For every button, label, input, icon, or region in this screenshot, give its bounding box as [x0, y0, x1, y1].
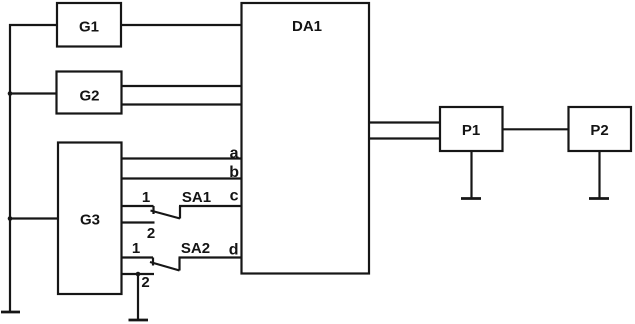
svg-text:P1: P1 [462, 122, 480, 139]
instrument P2 [569, 107, 632, 151]
wire: G2 output lower to DA1 [122, 103, 243, 105]
ground: left bus [1, 311, 20, 314]
generator G2 [57, 72, 122, 114]
wire: DA1 output upper to P1 [369, 121, 440, 123]
wire: SA2 arm riser [178, 258, 180, 271]
ground: P2 [589, 197, 609, 200]
svg-text:P2: P2 [590, 122, 608, 139]
svg-text:SA2: SA2 [181, 240, 210, 257]
switch SA1 pole tick [152, 206, 154, 214]
switch SA1 arm [151, 211, 181, 219]
generator G1 [57, 3, 121, 47]
wire: bus to G3 input [10, 217, 58, 219]
svg-text:G3: G3 [80, 212, 100, 229]
wire: node b (G3 to DA1) [122, 177, 243, 179]
svg-text:b: b [229, 164, 239, 181]
svg-text:SA1: SA1 [182, 189, 211, 206]
svg-text:2: 2 [141, 274, 149, 291]
switch SA2 arm [150, 262, 180, 271]
switch SA1 throw 2 wire [122, 221, 155, 223]
wire: bus to G1 input [9, 24, 57, 26]
wire: left supply bus vertical [9, 24, 11, 312]
switch SA1 throw 1 wire [122, 205, 154, 207]
ground: P1 [461, 197, 481, 200]
node: bus-G3 junction [8, 216, 13, 221]
integrated circuit DA1 [242, 3, 370, 274]
generator G3 [58, 143, 122, 295]
switch SA2 throw 2 wire [122, 273, 155, 275]
svg-text:d: d [229, 242, 239, 259]
svg-text:DA1: DA1 [292, 18, 322, 35]
switch SA2 throw 1 wire [122, 256, 154, 258]
instrument P1 [440, 107, 503, 151]
ground: SA2 throw 2 [129, 319, 149, 322]
wire: node c (SA1 to DA1) [179, 205, 242, 207]
wire: node d (SA2 to DA1) [179, 256, 243, 258]
svg-text:2: 2 [147, 225, 155, 242]
wire: G1 output to DA1 [121, 24, 242, 26]
wire: SA2 throw 2 to ground [137, 274, 139, 320]
svg-text:G2: G2 [79, 88, 99, 105]
node: SA2 throw 2 ground junction [136, 272, 141, 277]
wire: bus to G2 input [10, 92, 57, 94]
svg-text:G1: G1 [79, 19, 99, 36]
wire: DA1 output lower to P1 [369, 137, 440, 139]
ground stem: P2 [598, 151, 600, 199]
svg-text:c: c [230, 188, 239, 205]
wire: P1 to P2 [503, 128, 569, 130]
ground stem: P1 [470, 151, 472, 199]
wire: SA1 arm riser [179, 206, 181, 219]
node: bus-G2 junction [8, 91, 13, 96]
svg-text:1: 1 [132, 240, 140, 257]
wire: G2 output upper to DA1 [122, 85, 243, 87]
svg-text:1: 1 [142, 189, 150, 206]
svg-text:a: a [230, 145, 239, 162]
switch SA2 pole tick [152, 258, 154, 266]
wire: node a (G3 to DA1) [122, 157, 243, 159]
